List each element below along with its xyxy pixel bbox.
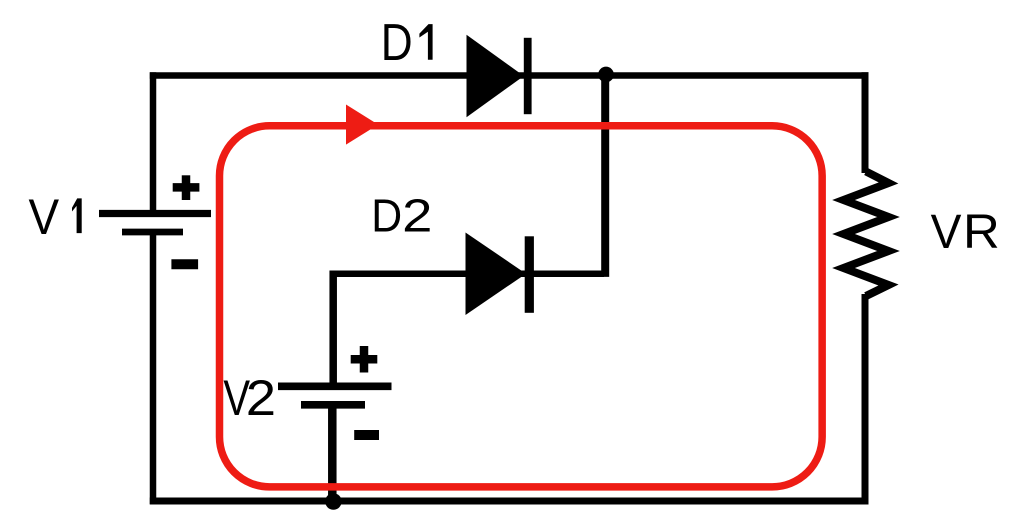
battery V2 plus sign <box>351 346 378 373</box>
battery V2 negative short plate <box>301 401 365 409</box>
battery V1 negative short plate <box>122 229 183 236</box>
label V1 <box>29 188 82 245</box>
svg-text:D: D <box>381 13 413 71</box>
diode D2 cathode bar <box>525 236 534 312</box>
svg-text:2: 2 <box>402 189 432 241</box>
label VR <box>931 205 1000 259</box>
svg-text:V: V <box>29 188 60 245</box>
wire: V2 upper lead <box>329 271 337 387</box>
svg-text:D: D <box>371 189 402 241</box>
battery V2 minus sign <box>354 430 379 440</box>
wire: bottom rail <box>150 498 869 505</box>
node: junction dot at D1 cathode / D2 branch <box>598 67 614 83</box>
resistor VR zigzag <box>844 172 889 297</box>
label V2 <box>223 370 276 426</box>
wire: V2 lower lead to bottom rail <box>328 405 337 501</box>
wire: top rail <box>150 72 869 79</box>
label D1 <box>381 13 433 71</box>
battery V1 plus sign <box>173 175 200 200</box>
battery V1 positive long plate <box>99 210 211 217</box>
svg-text:2: 2 <box>246 370 276 426</box>
diode D1 triangle <box>467 35 524 117</box>
wire: left vertical lower (V1 - plate to bottom rail) <box>150 232 157 504</box>
battery V2 positive long plate <box>278 382 392 390</box>
svg-text:R: R <box>963 205 1000 259</box>
wire: right vertical lower (VR to bottom rail) <box>862 294 869 504</box>
wire: right vertical upper (top rail to VR) <box>862 72 869 173</box>
wire: D2 anode wire from V2 branch <box>330 270 605 277</box>
node: junction dot at bottom rail / V2 branch <box>325 493 342 510</box>
svg-text:V: V <box>931 205 962 259</box>
current loop (red rounded rectangle) <box>220 126 823 487</box>
diode D2 triangle <box>466 233 527 316</box>
label D2 <box>371 189 432 241</box>
diode D1 cathode bar <box>524 38 532 114</box>
wire: vertical from top junction down to D2 cathode <box>601 74 609 277</box>
battery V1 minus sign <box>171 259 198 269</box>
current direction arrow (red) <box>346 105 378 145</box>
wire: left vertical upper (top rail to V1 + plate) <box>150 72 157 213</box>
